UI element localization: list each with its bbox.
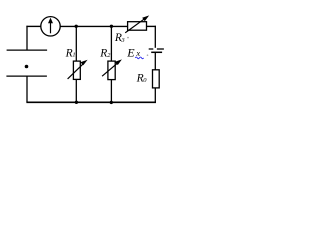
resistor R3 box [128,22,147,31]
battery B1 bottom plate [6,75,47,77]
battery B1 dot [25,65,29,69]
resistor R1 box [73,61,80,79]
svg-text:1: 1 [72,52,75,59]
wire left vertical upper [26,26,28,50]
gray dot after R3 [127,37,129,39]
junction dot bottom R1 [75,101,78,104]
current source arrow [50,22,52,34]
wire left vertical lower [26,77,28,103]
resistor R2 arrow [102,62,118,76]
battery Ex left dash [149,48,154,50]
battery B1 top plate [7,49,48,51]
wire top middle [60,25,127,27]
battery Ex long plate [151,51,162,53]
battery Ex right dash [157,48,164,50]
wire R1 branch upper [75,26,77,61]
resistor R2 box [108,61,115,80]
svg-text:x: x [135,48,140,58]
resistor R3 arrow [125,18,145,33]
wire top right [147,25,157,27]
wire right vertical upper [154,26,156,48]
resistor R1 arrow [68,63,84,79]
resistor R0 box [153,70,160,88]
wire right vertical lower [154,88,156,102]
wire R2 branch lower [110,80,112,103]
junction dot bottom R2 [110,101,113,104]
blue squiggle under x [135,57,143,59]
current source U1 circle [41,17,60,36]
svg-text:R: R [99,48,107,60]
wire bottom horizontal [26,101,156,103]
node A junction dot top R1 [75,25,78,28]
svg-text:E: E [126,45,135,59]
node B junction dot top R2 [110,25,113,28]
wire top left horizontal [26,25,40,27]
faint dot after Ex [147,54,149,56]
wire R2 branch upper [110,26,112,61]
svg-text:3: 3 [120,37,125,44]
wire right vertical middle [154,53,156,70]
wire R1 branch lower [75,79,77,102]
